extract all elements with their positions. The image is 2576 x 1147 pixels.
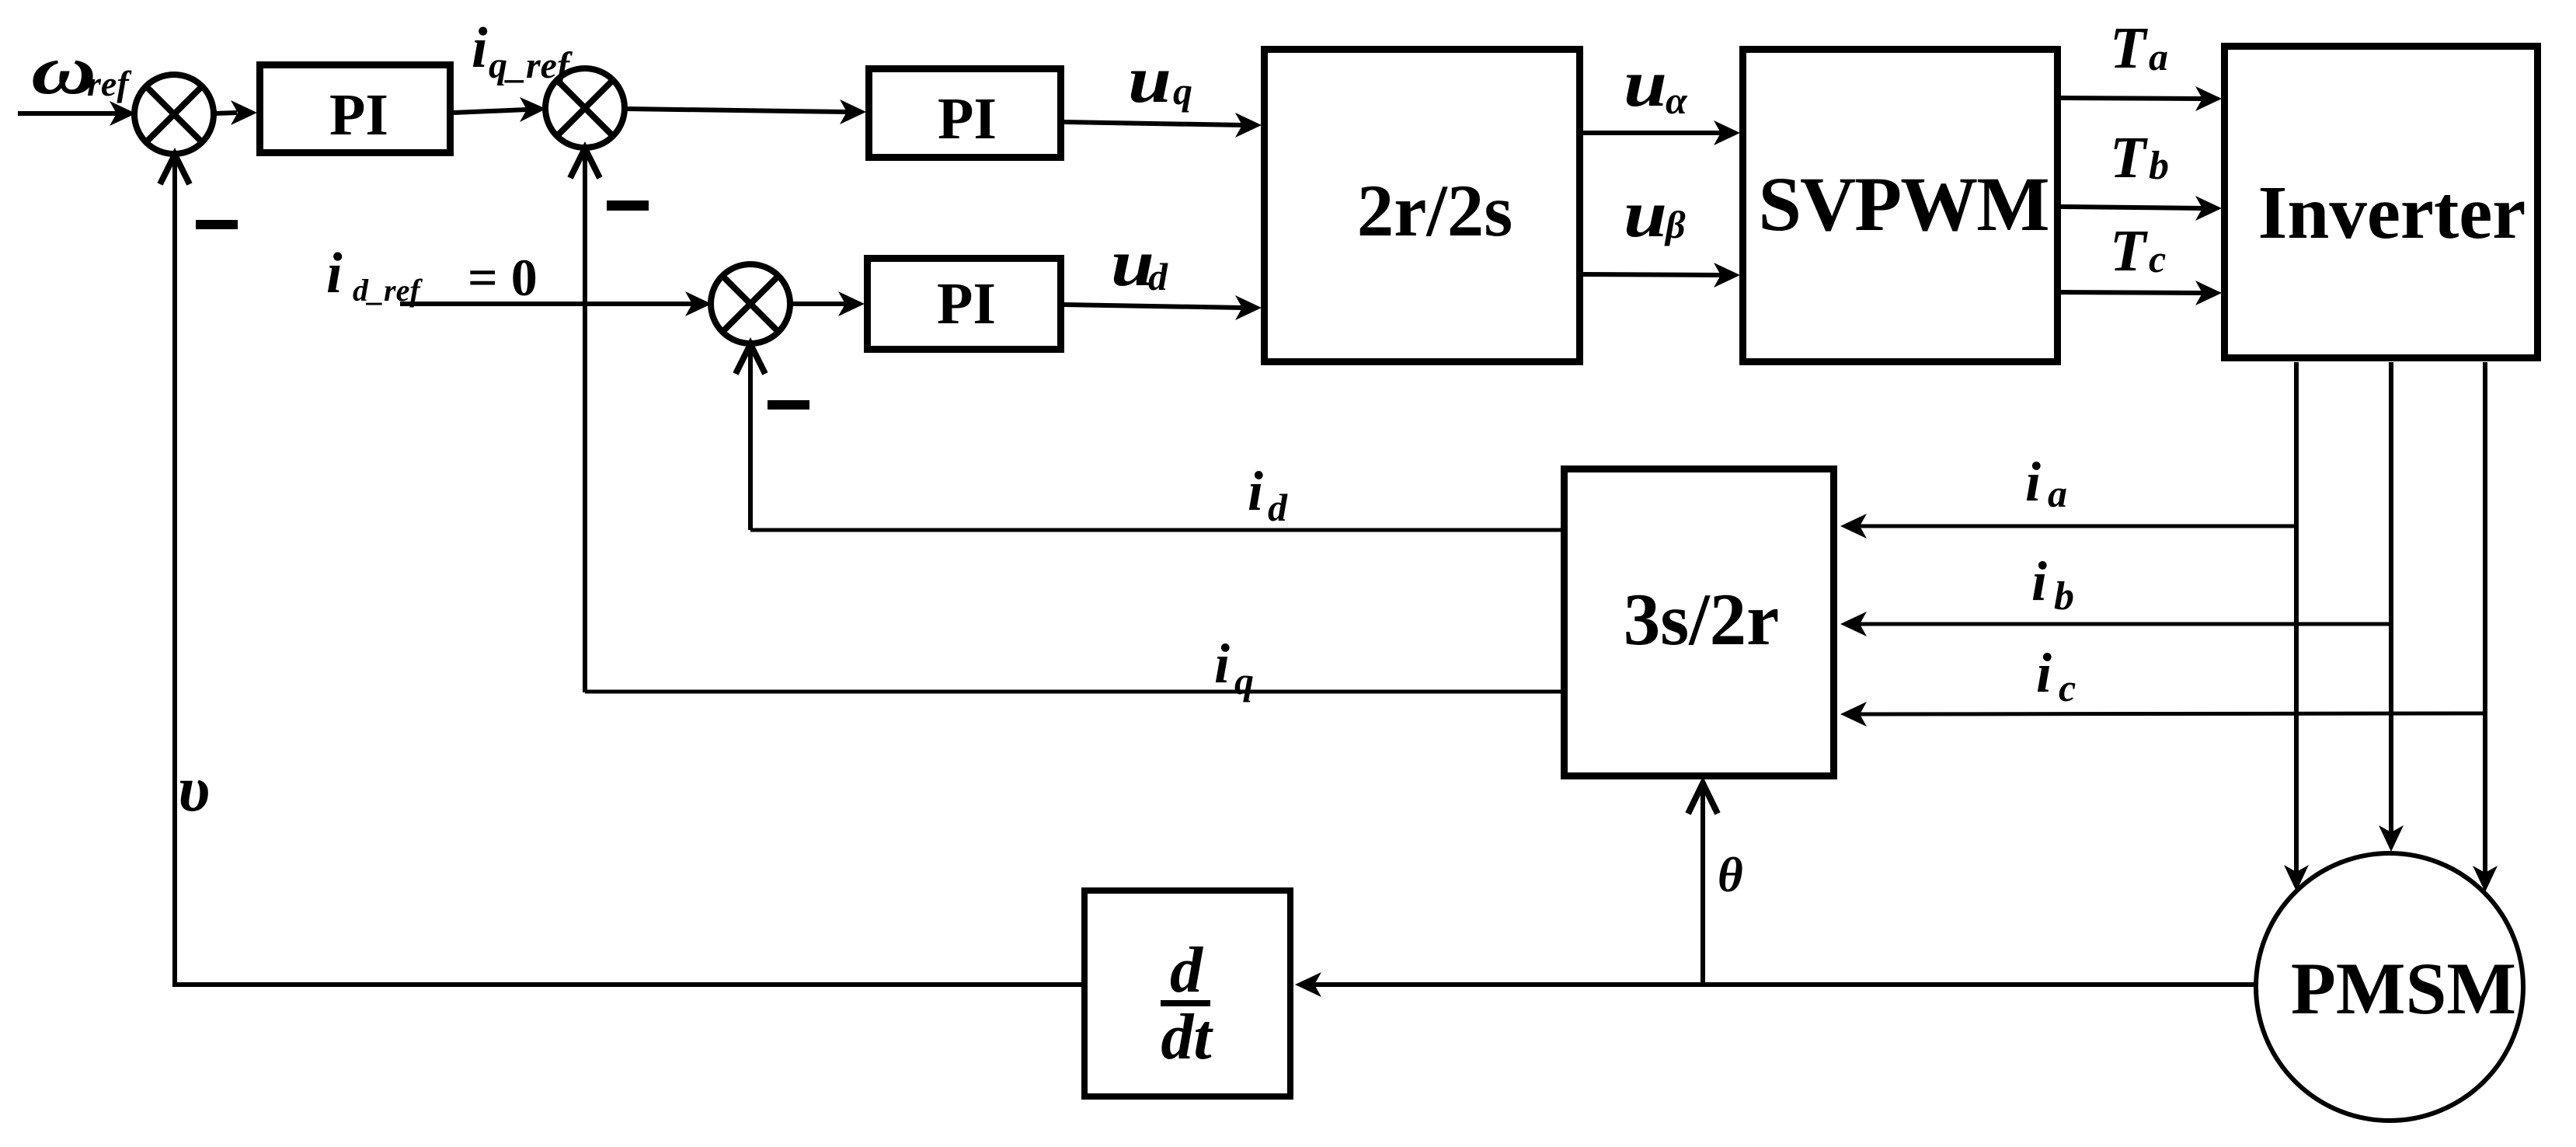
circle PMSM motor	[2256, 853, 2523, 1121]
block PI2	[869, 69, 1061, 158]
svg-text:d: d	[1170, 934, 1204, 1006]
wire u_beta 2r/2s to SVPWM	[1583, 274, 1722, 275]
block PI1	[260, 65, 451, 153]
svg-text:θ: θ	[1718, 848, 1743, 902]
svg-text:b: b	[2149, 144, 2169, 188]
svg-text:b: b	[2054, 574, 2074, 619]
wire PI1 to SJ2	[454, 110, 527, 113]
node T_c label	[2110, 218, 2166, 284]
wire u_q PI2 to 2r/2s	[1064, 122, 1243, 125]
svg-text:i: i	[472, 16, 488, 80]
wire T_c SVPWM to Inverter	[2061, 292, 2203, 293]
node i_b label	[2031, 550, 2074, 619]
wire i_q vertical up to SJ2	[583, 152, 587, 692]
node i_q label	[1214, 633, 1254, 702]
wire i_d vertical up to SJ3	[748, 348, 753, 530]
node u_d label	[1111, 225, 1168, 300]
svg-text:i: i	[1248, 460, 1263, 522]
svg-text:c: c	[2149, 237, 2166, 281]
svg-text:u: u	[1624, 176, 1667, 251]
wire Inverter phase A down to PMSM	[2294, 362, 2299, 872]
wire u_d PI3 to 2r/2s	[1064, 305, 1243, 308]
svg-text:u: u	[1128, 42, 1171, 117]
wire i_d_ref to SJ3	[400, 302, 693, 306]
svg-text:PMSM: PMSM	[2291, 947, 2516, 1030]
block 3s/2r	[1565, 469, 1834, 776]
svg-text:β: β	[1664, 203, 1686, 246]
svg-text:a: a	[2149, 35, 2168, 78]
node i_a label	[2025, 451, 2067, 515]
node u_beta label	[1624, 176, 1686, 251]
svg-text:q: q	[1234, 659, 1254, 702]
node omega_ref label	[31, 32, 132, 109]
minus sign at SJ1	[196, 220, 238, 229]
svg-text:Inverter: Inverter	[2258, 171, 2526, 254]
svg-text:q: q	[1173, 69, 1192, 113]
block PI3	[868, 259, 1061, 350]
svg-text:PI: PI	[937, 271, 996, 336]
svg-text:u: u	[1624, 46, 1667, 120]
wire u_alpha 2r/2s to SVPWM	[1583, 131, 1722, 135]
svg-text:T: T	[2110, 16, 2148, 81]
wire omega_ref input	[18, 111, 117, 116]
wire i_q horizontal from 3s/2r	[585, 690, 1561, 694]
node i_d label	[1248, 460, 1288, 529]
wire i_d horizontal from 3s/2r	[750, 528, 1561, 532]
minus sign at SJ2	[607, 200, 649, 211]
svg-text:i: i	[1214, 633, 1230, 695]
svg-text:i: i	[2031, 550, 2047, 612]
svg-text:dt: dt	[1161, 1001, 1213, 1073]
wire T_b SVPWM to Inverter	[2061, 207, 2203, 208]
node u_alpha label	[1624, 46, 1688, 122]
summing junction SJ2	[545, 68, 625, 148]
wire SJ1 to PI1	[214, 113, 237, 113]
node T_b label	[2110, 125, 2169, 190]
block SVPWM	[1743, 50, 2058, 362]
svg-text:υ: υ	[178, 753, 210, 825]
svg-text:2r/2s: 2r/2s	[1357, 169, 1513, 252]
svg-text:PI: PI	[938, 86, 997, 152]
wire i_b Inverter to 3s/2r	[1859, 622, 2391, 626]
block 2r/2s	[1265, 50, 1580, 362]
wire i_c Inverter to 3s/2r	[1859, 713, 2485, 714]
wire SJ2 to PI2	[625, 109, 848, 112]
node u_q label	[1128, 42, 1192, 117]
wire PMSM to d/dt	[1314, 982, 2256, 987]
svg-text:i: i	[2036, 642, 2052, 704]
svg-text:α: α	[1666, 78, 1688, 122]
wire i_a Inverter to 3s/2r	[1859, 525, 2296, 528]
node i_d_ref = 0 label	[326, 242, 538, 308]
svg-text:i: i	[326, 242, 343, 305]
node i_q_ref label	[472, 16, 573, 86]
wire Inverter phase C down to PMSM	[2483, 362, 2487, 873]
svg-text:= 0: = 0	[468, 248, 538, 307]
summing junction SJ3	[711, 264, 790, 343]
node i_c label	[2036, 642, 2076, 709]
svg-text:SVPWM: SVPWM	[1758, 161, 2048, 247]
svg-text:T: T	[2110, 218, 2148, 284]
wire Inverter phase B down to PMSM	[2389, 362, 2393, 832]
svg-text:d: d	[1148, 255, 1168, 298]
wire T_a SVPWM to Inverter	[2061, 98, 2203, 99]
svg-text:d: d	[1268, 486, 1288, 529]
svg-text:3s/2r: 3s/2r	[1624, 578, 1780, 661]
svg-text:i: i	[2025, 451, 2041, 513]
svg-text:PI: PI	[329, 82, 388, 148]
wire theta branch up to 3s/2r	[1701, 784, 1705, 985]
wire SJ3 to PI3	[791, 302, 846, 306]
svg-text:c: c	[2059, 666, 2076, 709]
svg-text:T: T	[2110, 125, 2148, 190]
summing junction SJ1	[134, 75, 214, 154]
block Inverter	[2225, 47, 2538, 358]
svg-text:a: a	[2048, 472, 2067, 515]
wire d/dt output to SJ1 feedback (horizontal)	[175, 982, 1081, 987]
node T_a label	[2110, 16, 2168, 81]
svg-text:ref: ref	[87, 64, 132, 103]
wire feedback vertical up to SJ1	[172, 159, 177, 987]
block d/dt	[1084, 891, 1290, 1096]
minus sign at SJ3	[768, 400, 809, 410]
